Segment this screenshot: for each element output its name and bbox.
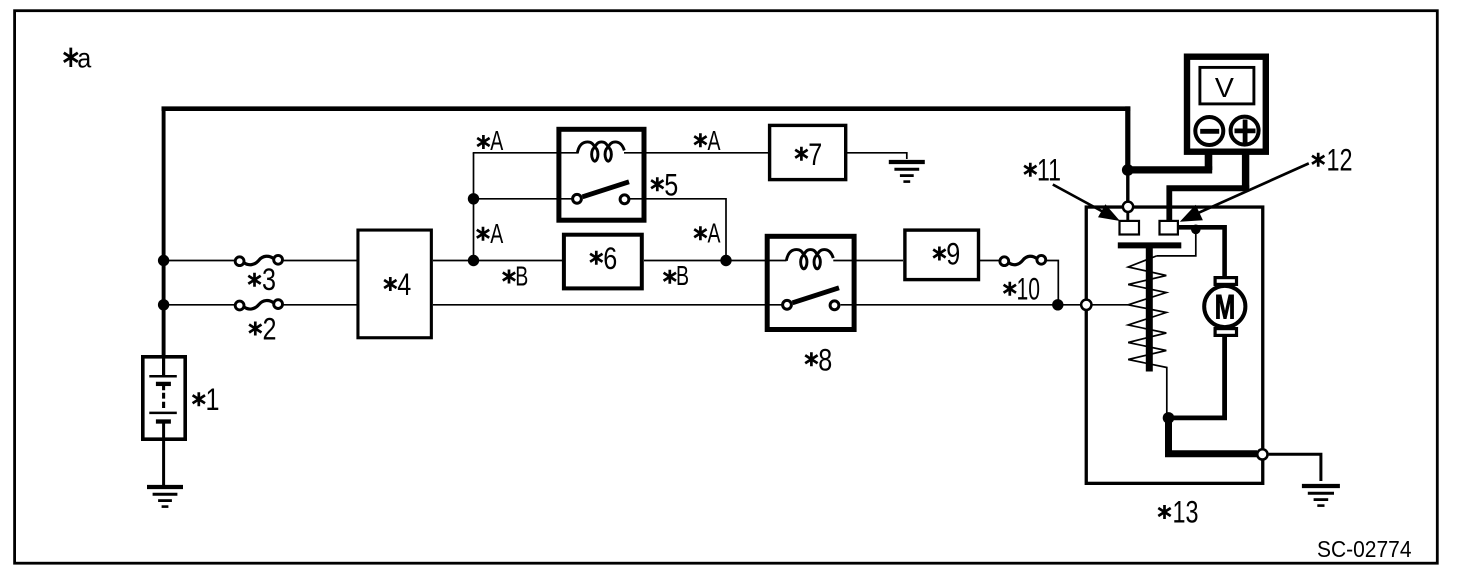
svg-text:8: 8 [818,341,832,377]
junction node: fuse10/row2 [1052,299,1063,310]
float arm bar [1118,242,1182,248]
label *A mid-left [477,218,504,249]
connector node: right of *13 (case ground) [1257,449,1267,459]
label *12 [1312,142,1353,178]
junction node: bus/row3 [158,255,169,266]
fuse *3 [235,255,282,265]
wire: *B row from *6 to relay *8 coil [644,260,787,262]
svg-text:V: V [1215,72,1235,103]
junction node: resistor top tap [1191,225,1201,235]
wire: top bus horizontal [162,106,1131,111]
label *2 [249,311,276,347]
svg-text:7: 7 [808,136,822,172]
svg-text:13: 13 [1173,494,1199,530]
relay *8 box [767,236,854,329]
svg-text:3: 3 [262,261,276,297]
relay *8 switch [783,288,839,310]
voltmeter V [1187,57,1266,152]
ground: at *7 [889,162,925,182]
svg-text:M: M [1215,289,1236,327]
ground: battery [147,487,183,507]
resistor zigzag (sender winding) [1128,256,1167,415]
label *7 [795,136,822,172]
junction node A / switch row [468,193,479,204]
wire: junction to sender connector circle [1126,170,1129,202]
relay *5 switch [573,182,629,204]
motor M [1204,278,1245,336]
svg-text:A: A [490,125,503,156]
wire: battery-to-bus vertical [162,109,166,356]
svg-text:5: 5 [664,166,678,202]
junction node A / *B row [468,255,479,266]
label *3 [248,261,276,297]
wire: *A row to relay *5 coil [473,152,579,154]
voltmeter plus terminal [1231,117,1259,145]
label *1 [193,381,220,417]
wire: *9 to fuse *10 [980,260,1000,262]
arrow to terminal *11 [1053,185,1120,222]
wire: *7 to ground [847,153,907,159]
svg-text:12: 12 [1327,142,1353,178]
junction node: bus/row2 [158,299,169,310]
wire: voltmeter plus lead [1242,144,1249,188]
label *8 [805,341,832,377]
label *13 [1158,494,1198,530]
junction node: switch-out / *B row [720,255,731,266]
wire: fuse *10 down to row2 [1046,261,1059,305]
label *9 [933,235,960,271]
label *B right [664,260,689,291]
wire: relay *5 switch row left [474,198,575,200]
relay *8 coil [786,250,833,269]
relay *5 box [559,129,644,220]
svg-text:6: 6 [603,240,617,276]
float arm stem [1146,247,1153,372]
ground: chassis at *13 [1302,486,1340,506]
label *5 [651,166,678,202]
battery *1 [143,355,185,486]
junction node: bus/minus lead [1122,164,1134,176]
label *4 [384,266,411,302]
svg-text:9: 9 [946,235,960,271]
label *A mid-right [694,218,721,249]
svg-text:SC-02774: SC-02774 [1317,536,1412,562]
label *a [64,43,92,74]
label *6 [590,240,617,276]
wire: fuse row *2 [164,304,235,306]
terminal *11 [1120,221,1140,235]
svg-text:2: 2 [263,311,277,347]
svg-text:11: 11 [1037,152,1061,188]
wire: ground node to case circle [1169,415,1258,454]
wire: fuse row *3 [164,260,235,262]
label *A top-left [477,125,504,156]
wire: resistor top connector [1156,229,1196,256]
wire: node A vertical [473,153,475,261]
block *6 [564,235,642,289]
label *A top-right [694,125,721,156]
wire: relay *8 switch out to sender [841,304,1087,306]
fuse *2 [235,300,282,310]
label *11 [1024,152,1061,188]
wire: relay *8 coil to *9 [833,260,903,262]
label *10 [1004,271,1040,307]
label *B left [503,261,529,292]
wire: bus right vertical down to voltmeter junction [1125,106,1130,170]
connector node: left of *13 [1081,300,1091,310]
wire: motor to ground node [1169,337,1225,418]
voltmeter minus terminal [1195,117,1223,145]
svg-text:1: 1 [206,381,220,417]
svg-text:a: a [77,43,92,74]
block *7 [770,125,846,179]
svg-text:10: 10 [1017,271,1041,307]
svg-text:A: A [708,125,721,156]
wire: motor feed from terminal *12 [1178,227,1224,277]
wire: relay *5 coil to *7 [624,152,768,154]
arrow to terminal *12 [1180,163,1309,221]
terminal *12 [1160,221,1178,235]
wire: connector circle to terminal *11 [1126,210,1129,222]
wire: row2 from *4 to relay *8 switch [433,304,783,306]
svg-text:B: B [676,260,689,291]
wire: voltmeter minus lead [1205,144,1213,170]
wire: wiper from case to winding [1087,304,1128,306]
fuse *10 [1000,255,1046,265]
svg-text:A: A [490,218,503,249]
wire: case to chassis ground [1269,454,1321,481]
unit box *13 [1086,207,1263,483]
block *4 [358,230,431,338]
relay *5 coil [577,142,624,161]
svg-text:B: B [515,261,528,292]
svg-text:4: 4 [397,266,411,302]
block *9 [905,230,979,280]
wire: relay *5 switch out, down to *B row [628,199,726,261]
wire: *B row from *4 to *6 [433,260,562,262]
junction node: motor/resistor bottom [1163,412,1175,424]
svg-text:A: A [708,218,721,249]
connector node: top of *13 [1123,202,1133,212]
